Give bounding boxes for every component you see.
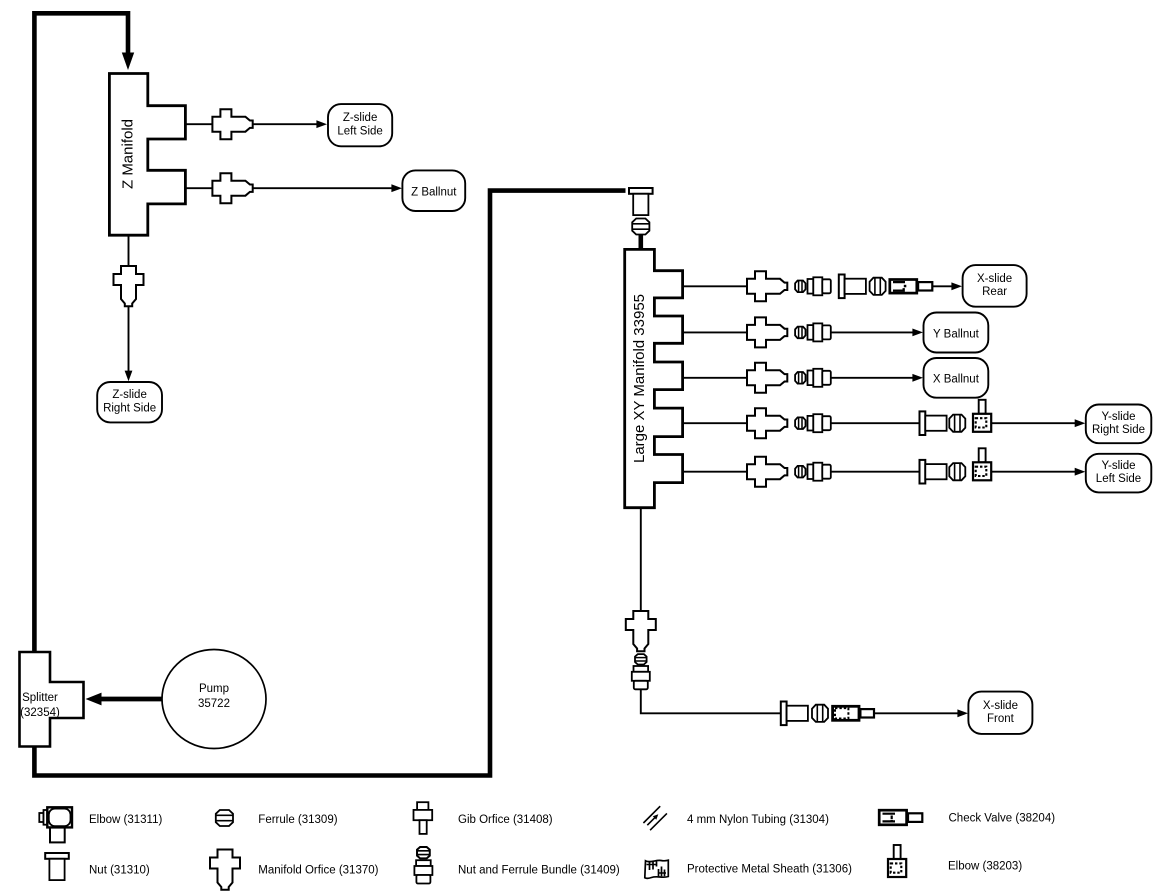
legend: ferrule 31309 symbol (216, 810, 233, 826)
node: Z-slide Left Side (328, 104, 392, 146)
legend: gib orifice 31408 symbol (414, 802, 433, 834)
wire: bundle down and right to nut (641, 689, 782, 713)
wire: main feed loop bottom (splitter to XY manifold riser) (34, 191, 625, 776)
nut and ferrule bundle (row 1) (808, 277, 831, 295)
ferrule (bottom run, large) (812, 705, 828, 722)
manifold orifice (Z port 1) (212, 109, 252, 139)
manifold orifice (XY bottom, vertical) (626, 611, 656, 651)
svg-text:Y-slide: Y-slide (1101, 411, 1135, 423)
manifold orifice (Z bottom port, vertical) (114, 266, 144, 306)
wire: XY port 3 to orifice (683, 377, 748, 379)
node: X-slide Rear (963, 265, 1027, 307)
nut (row 5) (920, 460, 947, 484)
svg-text:Nut (31310): Nut (31310) (89, 864, 150, 876)
wire: orifice to Z-slide Left Side (253, 123, 318, 125)
nut and ferrule bundle (row 2) (808, 323, 831, 341)
ferrule (row 5, large) (949, 463, 965, 480)
wire: orifice to Z-slide Right Side (128, 306, 130, 371)
svg-text:Y-slide: Y-slide (1101, 460, 1135, 472)
wire: check valve to X-slide Rear (933, 285, 953, 287)
wire: Z manifold port 2 to orifice (185, 187, 213, 189)
svg-text:Left Side: Left Side (1096, 473, 1141, 485)
wire: bundle to Y Ballnut (831, 331, 914, 333)
svg-text:Pump: Pump (199, 683, 229, 695)
svg-text:X Ballnut: X Ballnut (933, 374, 980, 386)
ferrule (below XY manifold, vertical) (635, 654, 647, 664)
wire: elbow to Y-slide Right Side (991, 422, 1076, 424)
node: Y Ballnut (924, 313, 989, 353)
svg-text:(32354): (32354) (20, 707, 60, 719)
svg-text:Ferrule (31309): Ferrule (31309) (258, 814, 337, 826)
svg-text:Right Side: Right Side (1092, 424, 1145, 436)
arrowhead into Z manifold (122, 53, 134, 71)
node: Z Ballnut (402, 170, 465, 211)
ferrule (row 4) (795, 417, 805, 429)
node: Z-slide Right Side (97, 382, 162, 422)
wire: bundle to nut (row 4) (831, 422, 919, 424)
nut and ferrule bundle (row 4) (808, 414, 831, 432)
nut (bottom run) (781, 702, 808, 726)
legend: elbow 38203 symbol (888, 845, 906, 877)
wire: XY port 2 to orifice (683, 331, 748, 333)
svg-text:Check Valve (38204): Check Valve (38204) (949, 812, 1056, 824)
svg-text:Splitter: Splitter (22, 692, 58, 704)
svg-text:4 mm Nylon Tubing (31304): 4 mm Nylon Tubing (31304) (687, 814, 829, 826)
node: Y-slide Right Side (1086, 405, 1152, 444)
ferrule (top of XY manifold, vertical) (632, 219, 649, 235)
wire: XY manifold bottom port (640, 508, 642, 612)
elbow 38203 (row 4) (973, 400, 991, 432)
wire: elbow to Y-slide Left Side (991, 471, 1076, 473)
svg-text:Nut and Ferrule Bundle (31409): Nut and Ferrule Bundle (31409) (458, 864, 620, 876)
manifold orifice (XY port 4) (747, 408, 787, 438)
svg-text:Large XY Manifold 33955: Large XY Manifold 33955 (631, 294, 648, 463)
svg-text:Z Manifold: Z Manifold (120, 119, 137, 189)
manifold orifice (XY port 5) (747, 457, 787, 487)
ferrule (row 2) (795, 327, 805, 339)
ferrule (row 5) (795, 466, 805, 478)
splitter body (20, 652, 84, 747)
elbow 38203 (row 5) (973, 448, 991, 480)
ferrule (row 1) (795, 281, 805, 293)
wire: XY port 5 to orifice (683, 471, 748, 473)
svg-text:Z-slide: Z-slide (343, 112, 378, 124)
wire: Z manifold port 1 to orifice (185, 123, 213, 125)
node: Y-slide Left Side (1086, 454, 1152, 493)
legend: manifold orifice 31370 symbol (210, 850, 240, 890)
wire: XY port 4 to orifice (683, 422, 748, 424)
node: X Ballnut (924, 358, 989, 398)
legend: nut and ferrule bundle 31409 symbol (414, 847, 432, 884)
Large XY manifold body (625, 249, 683, 507)
svg-text:X-slide: X-slide (983, 700, 1018, 712)
ferrule (row 3) (795, 372, 805, 384)
straight fitting with dashed core (bottom run) (833, 706, 874, 720)
wire: XY port 1 to orifice (683, 285, 748, 287)
manifold orifice (Z port 2) (212, 173, 252, 203)
svg-text:Rear: Rear (982, 286, 1007, 298)
Z manifold body (109, 74, 185, 236)
legend: nut 31310 symbol (45, 853, 69, 880)
wire: pump to splitter (thick arrow) (101, 697, 162, 702)
nut (top of XY manifold, vertical) (629, 188, 653, 215)
svg-text:Z Ballnut: Z Ballnut (411, 187, 457, 199)
svg-text:Z-slide: Z-slide (112, 389, 147, 401)
nut and ferrule bundle (below XY manifold, vertical) (632, 666, 650, 689)
check valve (row 1) (890, 280, 933, 294)
legend: check valve 38204 symbol (879, 810, 922, 825)
wire: orifice to Z Ballnut (253, 187, 393, 189)
manifold orifice (XY port 3) (747, 363, 787, 393)
wire: bundle to X Ballnut (831, 377, 914, 379)
legend: protective metal sheath symbol (645, 860, 669, 878)
node: X-slide Front (968, 692, 1032, 734)
svg-text:Right Side: Right Side (103, 402, 156, 414)
svg-text:X-slide: X-slide (977, 273, 1012, 285)
nut and ferrule bundle (row 3) (808, 369, 831, 387)
manifold orifice (XY port 1) (747, 271, 787, 301)
pump (162, 650, 266, 749)
svg-text:Elbow (31311): Elbow (31311) (89, 814, 162, 826)
nut (row 1) (839, 275, 866, 299)
svg-text:35722: 35722 (198, 698, 230, 710)
svg-text:Front: Front (987, 713, 1015, 725)
svg-text:Gib Orfice (31408): Gib Orfice (31408) (458, 814, 553, 826)
nut and ferrule bundle (row 5) (808, 463, 831, 481)
svg-text:Left Side: Left Side (337, 125, 382, 137)
wire: bundle to nut (row 5) (831, 471, 919, 473)
svg-text:Y Ballnut: Y Ballnut (933, 328, 980, 340)
wire: Z manifold bottom port (128, 235, 130, 266)
ferrule (row 1, large) (870, 278, 886, 295)
wire: feed stub into XY manifold top (638, 235, 643, 250)
svg-text:Manifold Orfice (31370): Manifold Orfice (31370) (258, 864, 378, 876)
manifold orifice (XY port 2) (747, 317, 787, 347)
ferrule (row 4, large) (949, 415, 965, 432)
svg-text:Elbow (38203): Elbow (38203) (948, 861, 1022, 873)
legend: elbow 31311 symbol (39, 807, 72, 842)
wire: main feed loop top-left (pump riser to Z manifold) (34, 13, 128, 652)
svg-text:Protective Metal Sheath (31306: Protective Metal Sheath (31306) (687, 863, 852, 875)
wire: fitting to X-slide Front (874, 712, 959, 714)
nut (row 4) (920, 411, 947, 435)
legend: 4 mm nylon tubing symbol (643, 806, 667, 830)
